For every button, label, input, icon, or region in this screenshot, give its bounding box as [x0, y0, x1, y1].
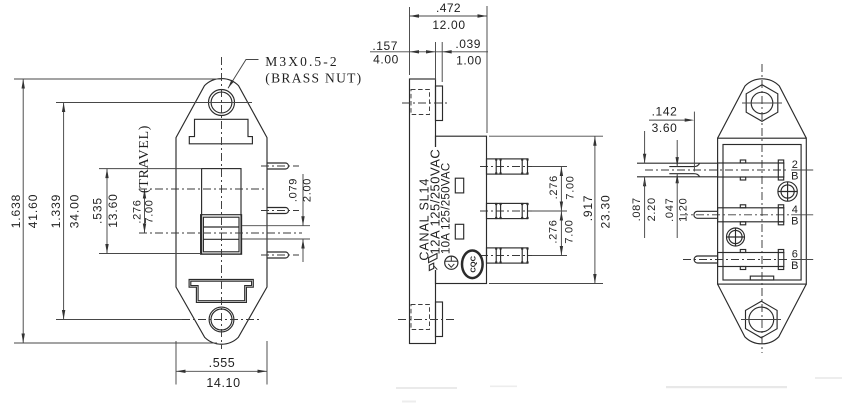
svg-text:.039: .039 [455, 37, 481, 51]
svg-text:3.60: 3.60 [652, 121, 678, 135]
svg-text:2.00: 2.00 [302, 178, 314, 202]
svg-text:.472: .472 [436, 1, 461, 15]
svg-text:.555: .555 [209, 356, 236, 370]
svg-text:7.00: 7.00 [565, 175, 577, 199]
svg-text:23.30: 23.30 [598, 194, 612, 228]
svg-text:(BRASS NUT): (BRASS NUT) [265, 71, 362, 86]
svg-text:.276: .276 [547, 219, 559, 243]
svg-text:13.60: 13.60 [106, 193, 120, 228]
svg-text:2: 2 [792, 159, 798, 171]
svg-text:12.00: 12.00 [432, 18, 465, 32]
svg-text:.087: .087 [631, 197, 643, 221]
svg-text:4: 4 [792, 204, 798, 216]
svg-text:.079: .079 [288, 178, 300, 202]
svg-text:.142: .142 [652, 105, 678, 119]
svg-text:B: B [791, 260, 798, 272]
svg-text:.917: .917 [581, 195, 595, 222]
svg-text:.276: .276 [548, 175, 560, 199]
svg-text:.535: .535 [91, 197, 105, 224]
svg-text:(TRAVEL): (TRAVEL) [137, 125, 152, 193]
svg-text:4.00: 4.00 [373, 52, 399, 66]
svg-text:.276: .276 [132, 199, 144, 223]
svg-text:10A 125/250VAC: 10A 125/250VAC [440, 163, 452, 255]
svg-text:14.10: 14.10 [206, 376, 240, 390]
svg-text:7.00: 7.00 [144, 199, 156, 223]
svg-text:7.00: 7.00 [563, 219, 575, 243]
svg-text:2.20: 2.20 [646, 197, 658, 221]
svg-text:6: 6 [792, 249, 798, 261]
svg-text:41.60: 41.60 [26, 194, 40, 229]
svg-text:34.00: 34.00 [67, 194, 81, 229]
svg-text:1.00: 1.00 [456, 53, 482, 67]
svg-text:1.638: 1.638 [9, 194, 23, 229]
svg-text:1.339: 1.339 [49, 194, 63, 229]
svg-text:CQC: CQC [468, 255, 477, 272]
svg-text:1.20: 1.20 [678, 198, 690, 222]
svg-text:.047: .047 [664, 198, 676, 222]
svg-text:B: B [791, 215, 798, 227]
svg-text:M3X0.5-2: M3X0.5-2 [265, 54, 338, 69]
svg-text:.157: .157 [372, 39, 398, 53]
svg-text:B: B [791, 171, 798, 183]
